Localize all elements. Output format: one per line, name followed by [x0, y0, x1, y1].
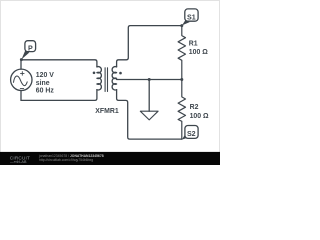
wire: top rail from source node to primary top [21, 60, 97, 67]
voltage source sine glyph [14, 76, 28, 86]
wire: source top lead [20, 60, 22, 69]
voltage source minus sign [20, 88, 23, 90]
svg-text:sine: sine [36, 80, 50, 87]
transformer primary polarity dot [93, 72, 96, 75]
flag S1 [182, 9, 198, 26]
wire: secondary bottom lead down to bottom-right rail [117, 90, 182, 140]
svg-text:XFMR1: XFMR1 [95, 108, 119, 115]
svg-text:P: P [28, 45, 33, 53]
node dot: center tap at ground branch [148, 78, 151, 81]
transformer XFMR1 secondary winding [112, 67, 116, 90]
svg-text:R2: R2 [190, 104, 199, 111]
transformer secondary polarity dot [119, 72, 122, 75]
wire: secondary top lead up to top-right rail [117, 26, 182, 67]
flag P [22, 41, 36, 60]
footer bar [0, 152, 220, 165]
svg-text:S1: S1 [187, 14, 196, 22]
wire: bottom wire from source to primary bottom [21, 90, 97, 101]
voltage source plus sign [21, 72, 25, 76]
svg-text:100 Ω: 100 Ω [189, 49, 208, 56]
svg-text:60 Hz: 60 Hz [36, 87, 55, 94]
svg-text:―≡✲LAB: ―≡✲LAB [10, 160, 27, 164]
node dot: S1 / R1 top node [180, 24, 183, 27]
resistor R1 [178, 26, 185, 80]
svg-text:100 Ω: 100 Ω [190, 113, 209, 120]
transformer XFMR1 primary winding [97, 67, 101, 90]
transformer core [105, 68, 107, 92]
ground [140, 111, 158, 120]
svg-text:R1: R1 [189, 40, 198, 47]
svg-text:http://circuitlab.com/c9hqy754: http://circuitlab.com/c9hqy754b6bxg [39, 158, 93, 162]
resistor R2 [178, 80, 185, 140]
canvas background [0, 0, 220, 165]
svg-text:120 V: 120 V [36, 72, 54, 79]
flag S2 [182, 126, 198, 140]
footer logo CIRCUITLAB [10, 155, 30, 164]
wire: center tap rail [117, 79, 182, 81]
voltage source V1 circle [11, 69, 32, 90]
wire: ground branch [148, 80, 150, 112]
node dot: probe P node [20, 58, 23, 61]
wire: source bottom lead [20, 91, 22, 101]
node dot: center tap at R1/R2 junction [180, 78, 183, 81]
svg-text:S2: S2 [187, 130, 196, 138]
